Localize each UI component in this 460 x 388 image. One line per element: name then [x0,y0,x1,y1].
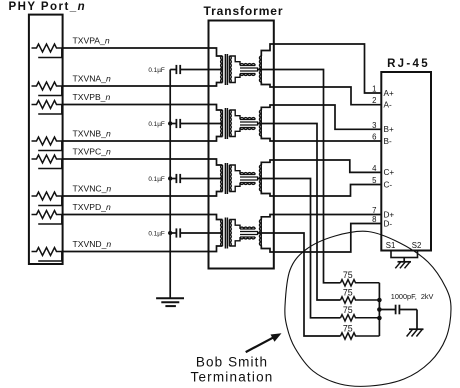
svg-text:PHY Port_n: PHY Port_n [9,1,87,13]
termination resistor R5 inside PHY (line TXVPC_n) [32,155,63,169]
wire center-tap B to Bob Smith resistor [258,124,341,301]
common-mode choke TA upper winding [240,64,255,66]
svg-text:8: 8 [372,215,376,224]
lead secondary top to choke TA [229,56,240,65]
svg-text:TXVNC_n: TXVNC_n [73,184,112,194]
capacitor C5 1000pF plates [395,305,397,315]
transformer TA core [224,54,226,85]
lead secondary top to choke TC [229,165,240,174]
wire A+ from PHY to transformer TA primary top [63,48,223,56]
common-mode choke TC lower winding [240,183,255,185]
svg-text:0.1µF: 0.1µF [148,176,165,183]
transformer TB secondary winding [229,110,231,137]
resistor 75 ohm R73 [341,315,380,321]
termination resistor R2 inside PHY (line TXVNA_n) [32,82,63,96]
svg-text:D+: D+ [384,210,395,219]
resistor 75 ohm R72 [341,297,380,303]
transformer TB line-side winding [259,110,261,136]
wire D- transformer to RJ45 pin 8 [261,224,381,253]
center-tap leads TB [240,122,258,125]
svg-text:C-: C- [384,180,393,189]
svg-text:7: 7 [372,206,376,215]
lead secondary top to choke TB [229,110,240,119]
capacitor ground bus wire [169,70,171,299]
svg-text:75: 75 [343,287,353,297]
transformer box [209,21,274,269]
common-mode choke TB upper winding [240,118,255,120]
termination bus wire [378,283,380,336]
chassis ground symbol (shield) [398,261,412,263]
center-tap leads TD [240,232,258,235]
shield bracket under RJ-45 [391,251,418,258]
svg-text:75: 75 [343,323,353,333]
wire C- transformer to RJ45 pin 5 [261,185,381,197]
junction dot cap bus C [168,176,172,180]
svg-text:1000pF, 2kV: 1000pF, 2kV [391,292,434,301]
svg-text:1: 1 [372,85,376,94]
lead secondary bottom to choke TD [229,238,240,247]
wire center-tap C to Bob Smith resistor [258,179,341,318]
lead secondary top to choke TD [229,220,240,229]
junction dot cap bus D [168,231,172,235]
transformer TB primary winding [221,110,223,137]
common-mode choke TA lower winding [240,74,255,76]
wire B- from PHY to transformer TB primary bottom [63,137,223,142]
junction dot termination bus [377,316,382,321]
termination resistor R4 inside PHY (line TXVNB_n) [32,137,63,151]
wire C+ from PHY to transformer TC primary top [63,159,223,165]
wire A+ transformer to RJ45 pin 1 [261,44,381,93]
lead secondary bottom to choke TB [229,128,240,137]
svg-text:0.1µF: 0.1µF [148,67,165,74]
transformer TD line-side winding [259,220,261,246]
transformer TD primary winding [221,220,223,247]
earth ground symbol (cap bus) [156,297,184,299]
svg-text:6: 6 [372,133,376,142]
common-mode choke TD upper winding [240,227,255,229]
center-tap leads TC [240,177,258,180]
lead secondary bottom to choke TA [229,74,240,83]
svg-text:TXVPC_n: TXVPC_n [73,147,111,157]
svg-text:75: 75 [343,305,353,315]
transformer TA secondary winding [229,56,231,83]
wire A- from PHY to transformer TA primary bottom [63,83,223,87]
common-mode choke TD lower winding [240,237,255,239]
wire A- transformer to RJ45 pin 2 [261,82,381,105]
common-mode choke TC upper winding [240,173,255,175]
Bob Smith termination boundary oval [285,231,451,386]
center-tap leads TA [240,68,258,71]
junction dot cap bus B [168,121,172,125]
wire C+ transformer to RJ45 pin 4 [261,160,381,172]
wire shield to chassis ground [403,258,405,262]
capacitor C5 1000pF lead [379,309,395,311]
svg-text:TXVPD_n: TXVPD_n [73,202,111,212]
svg-text:5: 5 [372,176,377,185]
lead secondary bottom to choke TC [229,183,240,192]
junction dot termination bus [377,298,382,303]
transformer TC secondary winding [229,165,231,192]
svg-text:TXVPA_n: TXVPA_n [73,36,110,46]
svg-text:TXVPB_n: TXVPB_n [73,92,111,102]
svg-text:C+: C+ [384,168,395,177]
junction dot termination bus [377,307,382,312]
capacitor C4 0.1uF (center tap D) [170,232,176,234]
svg-text:75: 75 [343,270,353,280]
svg-text:3: 3 [372,121,376,130]
capacitor C3 0.1uF (center tap C) [170,178,176,180]
capacitor C2 0.1uF (center tap B) [170,123,176,125]
svg-text:S1: S1 [386,241,396,250]
svg-text:TXVNB_n: TXVNB_n [73,129,111,139]
common-mode choke TB lower winding [240,128,255,130]
transformer TC core [224,163,226,194]
capacitor C1 0.1uF (center tap A) [170,69,176,71]
svg-text:4: 4 [372,164,377,173]
svg-text:0.1µF: 0.1µF [148,121,165,128]
svg-text:B+: B+ [384,125,394,134]
svg-text:A+: A+ [384,89,394,98]
termination resistor R7 inside PHY (line TXVPD_n) [32,211,63,225]
svg-text:Termination: Termination [191,370,274,385]
termination resistor R1 inside PHY (line TXVPA_n) [32,44,63,58]
PHY chip box (PHY Port_n) [29,15,63,264]
svg-text:0.1µF: 0.1µF [148,230,165,237]
termination resistor R6 inside PHY (line TXVNC_n) [32,192,63,206]
wire C- from PHY to transformer TC primary bottom [63,192,223,197]
transformer TD core [224,218,226,249]
chassis ground symbol (1000pF cap) [409,328,424,330]
wire center-tap A to Bob Smith resistor [258,70,341,283]
wire B+ from PHY to transformer TB primary top [63,105,223,111]
svg-text:RJ-45: RJ-45 [387,58,430,70]
svg-text:Transformer: Transformer [204,4,284,18]
transformer TA line-side winding [259,56,261,82]
transformer TC primary winding [221,165,223,192]
transformer TC line-side winding [259,165,261,191]
termination resistor R3 inside PHY (line TXVPB_n) [32,101,63,115]
svg-text:D-: D- [384,219,393,228]
svg-text:A-: A- [384,101,392,110]
transformer TD secondary winding [229,220,231,247]
wire D+ transformer to RJ45 pin 7 [261,215,381,220]
wire B+ transformer to RJ45 pin 3 [261,105,381,129]
resistor 75 ohm R74 [341,333,380,339]
transformer TA primary winding [221,56,223,83]
svg-text:Bob Smith: Bob Smith [196,355,268,370]
RJ-45 connector box [381,72,431,251]
wire D- from PHY to transformer TD primary bottom [63,246,223,252]
termination resistor R8 inside PHY (line TXVND_n) [32,248,63,262]
arrow to termination oval [246,336,276,352]
svg-text:TXVND_n: TXVND_n [73,239,112,249]
wire D+ from PHY to transformer TD primary top [63,215,223,220]
svg-text:2: 2 [372,96,376,105]
svg-text:S2: S2 [412,241,422,250]
resistor 75 ohm R71 [341,280,380,286]
wire B- transformer to RJ45 pin 6 [261,136,381,141]
wire center-tap D to Bob Smith resistor [258,233,341,336]
svg-text:B-: B- [384,137,392,146]
transformer TB core [224,108,226,139]
svg-text:TXVNA_n: TXVNA_n [73,74,111,84]
